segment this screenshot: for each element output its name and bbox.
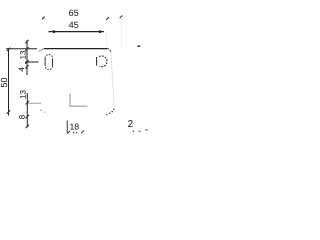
tick bbox=[26, 125, 29, 128]
50 dim tick top bbox=[7, 48, 10, 51]
dimension text 13 rotated lower bbox=[20, 90, 26, 98]
dimension text 50 rotated bbox=[1, 78, 7, 87]
part top-left lead-in chamfer bbox=[39, 49, 45, 52]
dimension text 4 rotated bbox=[19, 67, 25, 71]
45 dim line bbox=[49, 31, 105, 33]
part right edge faint bbox=[111, 53, 114, 108]
left slot obround bbox=[44, 58, 46, 66]
stray mark bbox=[137, 45, 140, 47]
50 dim line bbox=[8, 49, 10, 116]
part top-right corner arc bbox=[107, 49, 111, 53]
tick bbox=[25, 47, 28, 50]
2 annotation marks bbox=[133, 131, 135, 133]
extension line faint 45 right bbox=[106, 34, 108, 47]
tick bbox=[25, 65, 28, 68]
dimension text 13 rotated bbox=[20, 51, 26, 59]
18 dim tick right bbox=[81, 131, 84, 134]
part bottom-left dots bbox=[40, 110, 42, 112]
extension line faint right far bbox=[121, 18, 123, 48]
dimension text 65 bbox=[69, 10, 78, 16]
extension line slot center bbox=[25, 61, 39, 63]
right hole flat side bbox=[96, 57, 98, 66]
50 dim tick bottom bbox=[7, 110, 10, 113]
tick bbox=[25, 60, 28, 63]
45 dim dot left bbox=[53, 30, 56, 33]
extension line top left bbox=[6, 48, 37, 50]
extension line gray bottom left bbox=[28, 102, 41, 104]
right hole arc bbox=[99, 56, 107, 67]
tick bbox=[25, 40, 28, 43]
65 dim tick far right bbox=[120, 16, 123, 19]
45 dim dot right bbox=[99, 30, 102, 33]
65 dim tick left bbox=[42, 17, 45, 20]
18 dim tick left bbox=[67, 131, 70, 134]
dimension text 18 bbox=[70, 123, 79, 129]
dimension text 2 bbox=[128, 120, 133, 127]
bend line gray L corner bbox=[70, 94, 88, 107]
18 dim dots bbox=[73, 132, 74, 133]
dimension text 8 rotated bbox=[19, 115, 25, 119]
tick bbox=[26, 115, 29, 118]
part top edge bbox=[44, 48, 107, 50]
18 extension line bbox=[66, 121, 68, 133]
left chain dim line lower bbox=[26, 93, 28, 127]
dimension text 45 bbox=[69, 22, 78, 28]
part bottom-right corner arc dotted bbox=[113, 109, 115, 111]
left chain dim line upper bbox=[26, 41, 28, 76]
65 dim tick right bbox=[106, 17, 109, 20]
tick bbox=[26, 101, 29, 104]
